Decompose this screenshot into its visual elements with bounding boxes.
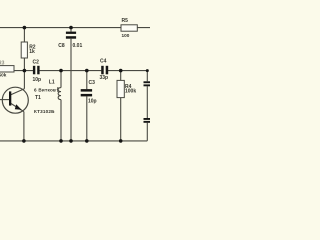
svg-text:L1: L1 bbox=[49, 79, 55, 85]
svg-text:10p: 10p bbox=[33, 77, 42, 83]
svg-text:0.01: 0.01 bbox=[73, 43, 83, 49]
svg-text:КТ3102Б: КТ3102Б bbox=[34, 109, 55, 114]
svg-text:C4: C4 bbox=[100, 59, 107, 65]
svg-text:1k: 1k bbox=[29, 49, 35, 55]
svg-text:C8: C8 bbox=[58, 43, 65, 49]
svg-text:100: 100 bbox=[122, 33, 130, 38]
svg-text:R3: R3 bbox=[0, 61, 5, 67]
svg-text:C2: C2 bbox=[33, 59, 40, 65]
svg-text:33p: 33p bbox=[100, 75, 109, 81]
svg-text:T1: T1 bbox=[35, 95, 41, 101]
svg-text:R5: R5 bbox=[122, 18, 129, 24]
svg-text:10p: 10p bbox=[88, 98, 97, 104]
svg-text:C3: C3 bbox=[89, 80, 96, 86]
svg-text:{: { bbox=[57, 87, 59, 93]
svg-text:6 Витков: 6 Витков bbox=[34, 88, 56, 93]
svg-text:100k: 100k bbox=[125, 89, 136, 95]
svg-text:50k: 50k bbox=[0, 72, 7, 77]
